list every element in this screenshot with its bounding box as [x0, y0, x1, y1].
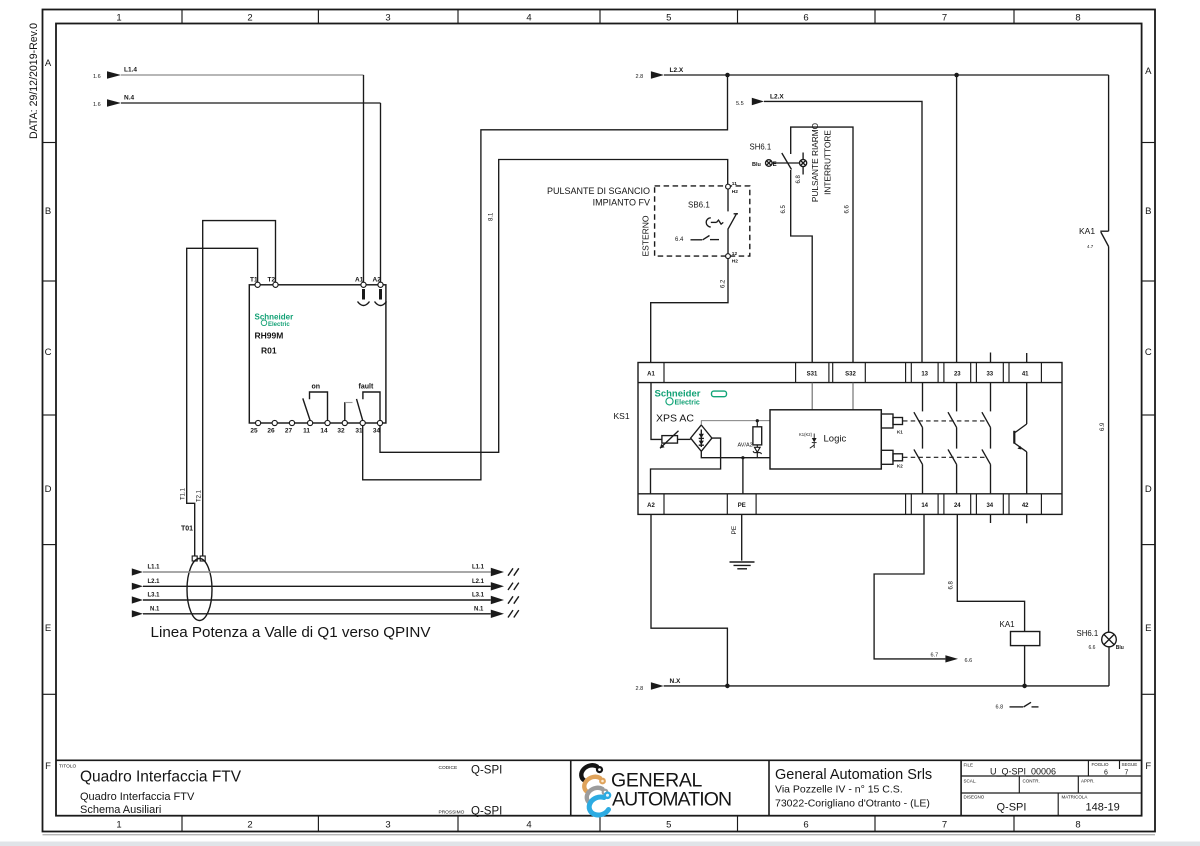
wire L1.4 [121, 74, 364, 76]
svg-text:2: 2 [247, 13, 252, 24]
svg-text:Q-SPI: Q-SPI [471, 806, 502, 818]
svg-text:6.4: 6.4 [675, 237, 684, 243]
wire S31 to logic [811, 383, 813, 410]
svg-text:XPS AC: XPS AC [656, 413, 694, 425]
svg-text:E: E [45, 623, 51, 634]
junction dot [1022, 684, 1027, 689]
thyristor glyph [799, 432, 817, 448]
svg-text:41: 41 [1022, 372, 1029, 378]
power line L2.1 [132, 579, 519, 591]
svg-text:T1.1: T1.1 [181, 487, 187, 500]
svg-text:MATRICOLA: MATRICOLA [1062, 795, 1088, 800]
ground PE [730, 514, 755, 568]
svg-text:4: 4 [526, 13, 531, 24]
logic block [770, 410, 881, 469]
KS1 transistor output 41-42 [1014, 383, 1026, 494]
toroid terminal squares [192, 556, 205, 561]
svg-text:Blu: Blu [752, 162, 761, 168]
left band row separators [43, 143, 57, 695]
svg-text:11: 11 [732, 181, 737, 187]
svg-text:Schneider: Schneider [655, 389, 701, 400]
svg-text:IMPIANTO FV: IMPIANTO FV [593, 198, 650, 208]
svg-text:U_Q-SPI_00006: U_Q-SPI_00006 [990, 767, 1056, 777]
KS1 Schneider logo [655, 389, 727, 407]
svg-text:148-19: 148-19 [1086, 802, 1120, 814]
svg-text:S31: S31 [807, 372, 818, 378]
wire resistor drop [756, 421, 758, 427]
svg-text:6.6: 6.6 [845, 204, 851, 213]
wire PE internal drop [742, 458, 744, 494]
svg-text:6.9: 6.9 [1100, 422, 1106, 431]
svg-text:26: 26 [267, 428, 275, 435]
wire bridge top to logic [701, 421, 770, 425]
frame bottom extra line [43, 834, 1156, 836]
node N.4 feeder arrow [93, 95, 135, 109]
svg-text:ESTERNO: ESTERNO [641, 215, 651, 256]
svg-text:5: 5 [666, 820, 671, 831]
KS1 A1 internal wire [651, 383, 662, 440]
relay coil KA1 [1000, 620, 1040, 646]
svg-text:32: 32 [337, 428, 345, 435]
svg-text:2.8: 2.8 [636, 686, 644, 692]
svg-text:13: 13 [921, 372, 928, 378]
svg-text:8: 8 [1075, 13, 1080, 24]
svg-text:D: D [45, 484, 52, 495]
svg-text:4: 4 [526, 820, 531, 831]
zener diode [753, 445, 762, 458]
power line L1.1 [132, 565, 519, 577]
KS1 contact column 13-14 [914, 383, 923, 494]
svg-text:KS1: KS1 [614, 411, 630, 421]
wire L2.X to RH99M fault common 31 [363, 75, 728, 480]
RH99M top terminal A2 [373, 277, 384, 288]
lamp SH6.1 [1077, 629, 1124, 651]
svg-text:8: 8 [1075, 820, 1080, 831]
svg-text:L1.4: L1.4 [124, 67, 137, 74]
svg-text:L1.1: L1.1 [148, 565, 161, 571]
svg-text:14: 14 [320, 428, 328, 435]
RH99M contact on (11-14) [303, 384, 328, 421]
svg-text:L1.1: L1.1 [472, 565, 485, 571]
svg-text:24: 24 [954, 503, 961, 509]
svg-text:Via Pozzelle IV - n° 15 C.S.: Via Pozzelle IV - n° 15 C.S. [775, 784, 903, 796]
svg-text:T01: T01 [181, 526, 193, 533]
svg-text:Q-SPI: Q-SPI [997, 802, 1027, 814]
svg-text:5: 5 [666, 13, 671, 24]
RH99M bottom terminals 25 26 27 11 14 32 31 34 [256, 420, 383, 425]
svg-text:Schema Ausiliari: Schema Ausiliari [80, 804, 161, 816]
svg-text:AV/A2: AV/A2 [738, 443, 753, 449]
wire L1.4 drop to A1 [363, 75, 365, 282]
RH99M Schneider logo [255, 313, 294, 328]
svg-text:8.1: 8.1 [489, 212, 495, 221]
svg-text:23: 23 [954, 372, 961, 378]
KS1 contact column 23-24 [948, 383, 957, 494]
dashed link K1 [903, 420, 988, 422]
svg-text:25: 25 [250, 428, 258, 435]
svg-text:Linea Potenza a Valle di Q1 ve: Linea Potenza a Valle di Q1 verso QPINV [151, 624, 432, 641]
svg-text:6.2: 6.2 [721, 279, 727, 288]
wire right riser to lamp [1108, 247, 1110, 633]
svg-text:APPR.: APPR. [1081, 779, 1095, 784]
arrow to 6.6 [931, 653, 973, 664]
svg-text:Schneider: Schneider [255, 313, 294, 322]
wire L2.X drop to KA1 contact [1108, 75, 1110, 231]
wire reset loop top bar [791, 127, 853, 362]
wire to KS1 terminal 23 [956, 75, 958, 363]
wire N.4 drop to A2 [380, 103, 382, 282]
svg-text:6: 6 [803, 820, 808, 831]
svg-text:L2.1: L2.1 [472, 579, 485, 585]
svg-text:6: 6 [1104, 770, 1108, 777]
svg-text:12: 12 [732, 251, 738, 257]
svg-text:L2.1: L2.1 [148, 579, 161, 585]
svg-text:N.4: N.4 [124, 95, 135, 102]
svg-text:Electric: Electric [268, 322, 290, 328]
svg-text:SCAL.: SCAL. [964, 779, 977, 784]
svg-text:F: F [45, 761, 51, 772]
svg-text:A1: A1 [647, 372, 655, 378]
svg-text:SH6.1: SH6.1 [1077, 629, 1099, 638]
svg-text:RH99M: RH99M [255, 331, 284, 341]
SB6.1 terminal 11 [726, 184, 731, 189]
svg-text:73022-Corigliano d'Otranto - (: 73022-Corigliano d'Otranto - (LE) [775, 798, 930, 810]
svg-text:KA1: KA1 [1000, 620, 1016, 629]
svg-text:FOGLIO: FOGLIO [1092, 762, 1110, 767]
junction dots on L2.X [725, 73, 730, 78]
wire T1 to toroid (T1.1) [187, 248, 258, 556]
node L2.X feeder arrow [636, 67, 684, 80]
svg-text:6: 6 [803, 13, 808, 24]
resistor AV/A2 [738, 427, 762, 449]
junction dot resistor top [756, 419, 759, 422]
node N.X feeder arrow [636, 678, 682, 692]
junction dot PE rail [741, 456, 744, 459]
svg-text:3: 3 [385, 820, 390, 831]
svg-text:6.8: 6.8 [948, 580, 954, 589]
wire N.X bus [664, 685, 1109, 687]
svg-text:R01: R01 [261, 346, 277, 356]
svg-text:11: 11 [303, 428, 310, 435]
varistor [660, 431, 679, 449]
title block texts [59, 764, 502, 818]
svg-text:General Automation Srls: General Automation Srls [775, 767, 932, 783]
svg-text:K2: K2 [897, 464, 903, 469]
SB6.1 linked contact cross-ref 6.4 [675, 236, 719, 244]
svg-text:E: E [1145, 623, 1151, 634]
svg-text:L2.X: L2.X [770, 93, 784, 100]
svg-text:27: 27 [285, 428, 293, 435]
svg-text:Q-SPI: Q-SPI [471, 765, 502, 777]
logo General Automation text [611, 770, 731, 811]
wire RH99M 34 to SB6.1 terminal 11 [380, 160, 728, 453]
wire KA1 coil to N.X [1024, 646, 1026, 686]
svg-text:CONTR.: CONTR. [1023, 779, 1040, 784]
svg-text:1.6: 1.6 [93, 74, 101, 80]
bottom band column separators [182, 816, 1014, 832]
logo General Automation icon [581, 765, 611, 815]
svg-text:FILE: FILE [964, 763, 974, 768]
svg-text:E: E [773, 162, 777, 168]
RH99M top terminal A1 [355, 277, 366, 288]
svg-text:N.1: N.1 [474, 607, 484, 613]
pushbutton SB6.1 dashed enclosure [655, 186, 750, 256]
power line L3.1 [132, 593, 519, 605]
svg-text:Quadro Interfaccia FTV: Quadro Interfaccia FTV [80, 769, 242, 786]
svg-text:2: 2 [247, 820, 252, 831]
svg-text:C: C [1145, 347, 1152, 358]
right row letters [1145, 66, 1152, 772]
svg-text:K1: K1 [897, 430, 903, 435]
svg-text:33: 33 [986, 372, 993, 378]
RH99M supply symbol A2 [375, 289, 387, 306]
svg-text:6.5: 6.5 [781, 204, 787, 213]
svg-text:34: 34 [986, 503, 993, 509]
svg-text:AUTOMATION: AUTOMATION [612, 789, 731, 811]
bottom column numbers [116, 820, 1080, 831]
svg-text:L2.X: L2.X [670, 67, 684, 74]
svg-text:PE: PE [731, 525, 738, 534]
svg-text:A: A [45, 58, 52, 69]
company address [775, 767, 932, 810]
reset button SH6.1 contact [766, 153, 807, 175]
svg-text:6.6: 6.6 [1089, 645, 1096, 651]
svg-text:Logic: Logic [824, 434, 847, 445]
wire bridge bottom rail [701, 451, 770, 457]
svg-text:7: 7 [1125, 770, 1129, 777]
svg-text:fault: fault [359, 384, 374, 391]
svg-text:N.1: N.1 [150, 607, 160, 613]
title block mini table [961, 760, 1142, 815]
top column numbers [116, 13, 1080, 24]
svg-text:6.8: 6.8 [796, 174, 802, 183]
wire SH6.1 to KS1 S31 [791, 170, 813, 363]
RH99M supply symbol A1 [358, 289, 370, 306]
svg-text:SH6.1: SH6.1 [750, 143, 772, 152]
title block frame [56, 760, 1142, 815]
wire N.4 [121, 102, 381, 104]
svg-text:SEGUE: SEGUE [1122, 762, 1138, 767]
svg-text:INTERRUTTORE: INTERRUTTORE [823, 130, 833, 195]
svg-text:Quadro Interfaccia FTV: Quadro Interfaccia FTV [80, 791, 195, 803]
svg-text:Electric: Electric [675, 400, 700, 407]
svg-text:4.7: 4.7 [1087, 244, 1094, 249]
wire to KS1 terminal 13 [764, 101, 922, 362]
current transformer T01 toroid [187, 559, 212, 621]
svg-text:PROSSIMO: PROSSIMO [439, 810, 465, 816]
svg-text:1: 1 [116, 13, 121, 24]
svg-text:1.6: 1.6 [93, 102, 101, 108]
wire lamp to N.X [1108, 647, 1110, 686]
svg-text:A2: A2 [647, 503, 655, 509]
safety relay KS1 body [638, 363, 1062, 515]
dashed link K2 [903, 456, 988, 458]
wire S32 to logic [852, 383, 854, 410]
svg-text:6.6: 6.6 [965, 658, 973, 664]
svg-text:6.8: 6.8 [996, 705, 1004, 711]
node L2.X1 feeder arrow [736, 93, 784, 106]
svg-text:7: 7 [942, 13, 947, 24]
wire SB6.1 12 to KS1 A1 [651, 259, 728, 363]
svg-text:H2: H2 [732, 189, 738, 195]
right band row separators [1142, 143, 1155, 695]
svg-text:S32: S32 [845, 372, 856, 378]
svg-text:CODICE: CODICE [439, 765, 458, 771]
KS1 bottom terminal cell lines [664, 494, 1041, 515]
svg-text:6.7: 6.7 [931, 653, 939, 659]
svg-text:DATA: 29/12/2019-Rev.0: DATA: 29/12/2019-Rev.0 [28, 23, 40, 139]
svg-text:C: C [45, 347, 52, 358]
wire bridge right to A2 [651, 438, 721, 494]
svg-text:Blu: Blu [1116, 645, 1124, 651]
svg-text:3: 3 [385, 13, 390, 24]
wire KS1 24 to KA1 coil [957, 514, 1024, 631]
power line N.1 [132, 607, 519, 619]
svg-text:PULSANTE DI SGANCIO: PULSANTE DI SGANCIO [547, 186, 650, 196]
KS1 bottom terminal labels [647, 503, 1029, 509]
RH99M top terminal T1 [250, 277, 260, 288]
junction dot [725, 684, 730, 689]
KS1 top terminal cell lines [664, 363, 1041, 383]
KS1 contact column 33-34 [982, 383, 991, 494]
svg-text:D: D [1145, 484, 1152, 495]
svg-text:L3.1: L3.1 [148, 593, 161, 599]
svg-text:H2: H2 [732, 259, 738, 265]
SB6.1 mushroom actuator [706, 218, 723, 227]
SB6.1 NC contact [728, 189, 738, 254]
wire KS1 A2 to N.X [651, 514, 727, 686]
KA1 contact cross-ref 6.8 [996, 702, 1039, 710]
bridge rectifier [691, 425, 712, 451]
left row letters [45, 58, 52, 772]
stub above 33 [990, 353, 992, 363]
svg-text:DISEGNO: DISEGNO [964, 795, 985, 800]
svg-text:KA1: KA1 [1079, 226, 1095, 236]
wire varistor to bridge [678, 438, 691, 440]
svg-text:on: on [312, 384, 321, 391]
svg-text:N.X: N.X [670, 678, 682, 685]
stub above 41 [1026, 353, 1028, 363]
svg-text:7: 7 [942, 820, 947, 831]
svg-text:T2.1: T2.1 [197, 489, 203, 502]
svg-text:2.8: 2.8 [636, 74, 644, 80]
svg-text:31: 31 [355, 428, 363, 435]
wire T2 to toroid (T2.1) [203, 221, 276, 556]
svg-text:L3.1: L3.1 [472, 593, 485, 599]
svg-text:1: 1 [116, 820, 121, 831]
KS1 top terminal labels [647, 372, 1029, 378]
svg-text:14: 14 [921, 503, 928, 509]
RH99M top terminal T2 [268, 277, 279, 288]
relay RH99M R01 body [249, 285, 386, 423]
svg-text:K1(K2): K1(K2) [799, 432, 813, 437]
relay K1 output [881, 414, 903, 435]
stub below 42 [1026, 514, 1028, 523]
svg-text:SB6.1: SB6.1 [688, 201, 710, 210]
svg-text:B: B [1145, 206, 1151, 217]
svg-text:PE: PE [738, 503, 746, 509]
svg-text:B: B [45, 206, 51, 217]
SB6.1 terminal 12 [726, 254, 731, 259]
wire L2.X bus [664, 74, 1109, 76]
svg-text:A: A [1145, 66, 1152, 77]
bottom gray strip [0, 842, 1200, 846]
caption pulsante di sgancio [547, 186, 650, 208]
svg-text:F: F [1145, 761, 1151, 772]
contact KA1 (top right) [1079, 226, 1109, 249]
svg-text:PULSANTE RIARMO: PULSANTE RIARMO [810, 122, 820, 202]
RH99M contact fault (31-32-34) [345, 384, 380, 421]
node L1.4 feeder arrow [93, 67, 137, 81]
top band column separators [182, 10, 1014, 24]
stub below 34 [990, 514, 992, 523]
svg-text:TITOLO: TITOLO [59, 764, 77, 770]
svg-text:42: 42 [1022, 503, 1029, 509]
wire KS1 14 to cross-ref 6.6 [874, 514, 945, 659]
svg-text:5.5: 5.5 [736, 101, 744, 107]
relay K2 output [881, 450, 903, 468]
